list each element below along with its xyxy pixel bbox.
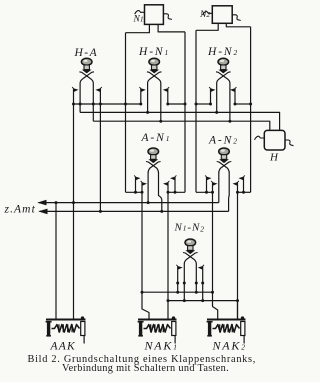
- svg-text:z.Amt: z.Amt: [4, 204, 36, 216]
- svg-text:H-N1: H-N1: [138, 46, 170, 58]
- svg-text:A-N2: A-N2: [208, 135, 239, 147]
- svg-text:N1: N1: [133, 15, 144, 25]
- svg-text:A-N1: A-N1: [141, 132, 172, 144]
- svg-text:N1-N2: N1-N2: [174, 221, 205, 233]
- svg-text:AAK: AAK: [50, 341, 76, 353]
- svg-text:H-A: H-A: [74, 47, 99, 59]
- svg-text:N2: N2: [199, 10, 210, 20]
- svg-text:Verbindung mit Schaltern und T: Verbindung mit Schaltern und Tasten.: [62, 363, 229, 374]
- svg-text:H: H: [269, 152, 279, 164]
- svg-text:H-N2: H-N2: [207, 46, 239, 58]
